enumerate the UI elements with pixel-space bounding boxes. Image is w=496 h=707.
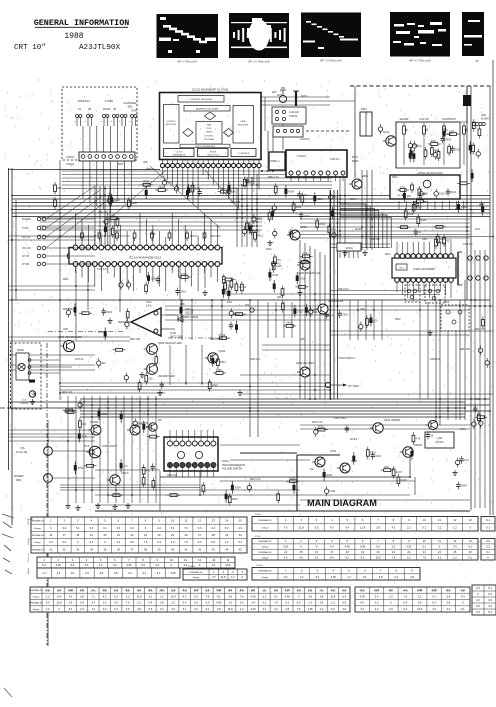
svg-text:RAM: RAM <box>207 124 212 127</box>
svg-text:R225: R225 <box>101 413 107 416</box>
svg-text:6.3: 6.3 <box>330 545 334 549</box>
svg-text:C#31: C#31 <box>63 329 69 331</box>
parts cluster J <box>338 310 342 318</box>
remote connector pads left <box>22 217 95 266</box>
svg-text:R331: R331 <box>413 145 419 148</box>
svg-text:IC#1: IC#1 <box>475 229 481 231</box>
svg-text:3.4: 3.4 <box>62 526 66 530</box>
waveform photo WF-2 <box>229 13 289 64</box>
svg-text:SELECTOR: SELECTOR <box>207 154 219 156</box>
svg-text:0.1: 0.1 <box>263 601 267 605</box>
svg-text:4.35: 4.35 <box>216 601 222 605</box>
parts cluster O top mid <box>110 197 113 203</box>
svg-text:0.6: 0.6 <box>418 601 422 605</box>
svg-text:7.6: 7.6 <box>422 555 426 559</box>
transistor Q603 <box>297 367 310 377</box>
parts cluster M <box>229 322 233 330</box>
corner pen mark <box>4 688 12 697</box>
svg-text:MPC1230M: MPC1230M <box>170 335 183 338</box>
svg-text:4.3: 4.3 <box>330 525 334 529</box>
svg-text:VOL: VOL <box>20 447 26 450</box>
svg-text:4.3: 4.3 <box>85 563 89 567</box>
parts cluster G below IC101 <box>222 289 225 295</box>
svg-text:4.3: 4.3 <box>157 526 161 530</box>
svg-text:TERMINAL NO: TERMINAL NO <box>258 540 272 543</box>
svg-text:4.3: 4.3 <box>392 525 396 529</box>
svg-text:C112: C112 <box>247 230 253 233</box>
waveform photo WF-4 <box>390 12 450 63</box>
svg-text:2.2k: 2.2k <box>110 214 115 217</box>
svg-text:4.3: 4.3 <box>375 607 379 611</box>
waveform photo WF-3 <box>301 13 361 63</box>
svg-text:CH UP: CH UP <box>22 256 30 258</box>
svg-text:2.2: 2.2 <box>99 563 103 567</box>
svg-text:5.1: 5.1 <box>42 563 46 567</box>
svg-text:2.8: 2.8 <box>160 601 164 605</box>
svg-text:0.1: 0.1 <box>198 540 202 544</box>
svg-text:7.6: 7.6 <box>403 594 407 598</box>
svg-text:5.1: 5.1 <box>285 601 289 605</box>
svg-text:5.1: 5.1 <box>488 586 492 590</box>
svg-text:CN-3B: CN-3B <box>397 195 404 197</box>
svg-text:TERMINAL NO: TERMINAL NO <box>258 570 272 573</box>
svg-text:C622: C622 <box>158 186 164 189</box>
svg-text:0.1: 0.1 <box>422 525 426 529</box>
svg-text:7.6: 7.6 <box>206 594 210 598</box>
svg-text:0.4: 0.4 <box>342 594 346 598</box>
svg-text:4.35: 4.35 <box>331 575 337 579</box>
svg-text:C418: C418 <box>180 291 186 294</box>
svg-text:2.2: 2.2 <box>315 555 319 559</box>
svg-text:9.1: 9.1 <box>71 571 75 575</box>
svg-text:TU101: TU101 <box>297 154 306 158</box>
svg-text:4.35: 4.35 <box>170 571 176 575</box>
transistor Q301 <box>297 260 310 270</box>
svg-text:Voltage: Voltage <box>34 541 42 544</box>
svg-text:0.6: 0.6 <box>69 601 73 605</box>
transistor Q608 <box>370 423 383 433</box>
svg-text:C520: C520 <box>455 148 461 151</box>
svg-text:Voltage: Voltage <box>33 608 41 611</box>
svg-text:7.6: 7.6 <box>240 594 244 598</box>
svg-text:0.6: 0.6 <box>141 563 145 567</box>
op IC101 main control chip <box>67 213 222 291</box>
svg-text:D#01 1S#1##: D#01 1S#1## <box>184 317 199 319</box>
svg-text:IC201 HD44608P: IC201 HD44608P <box>413 267 435 271</box>
parts cluster H <box>281 286 284 299</box>
svg-text:R512: R512 <box>113 200 119 203</box>
svg-text:11.8: 11.8 <box>137 594 142 598</box>
svg-text:C118 47u: C118 47u <box>300 139 311 141</box>
svg-text:UP: UP <box>113 109 117 111</box>
svg-text:B-204#: B-204# <box>481 118 489 121</box>
svg-text:0.4: 0.4 <box>488 592 492 596</box>
svg-text:7.6: 7.6 <box>453 545 457 549</box>
svg-text:MODE: MODE <box>210 151 217 153</box>
svg-text:100: 100 <box>149 377 154 380</box>
svg-text:R613: R613 <box>232 498 238 501</box>
svg-text:3.4: 3.4 <box>69 594 73 598</box>
svg-text:CP-90X: CP-90X <box>435 441 444 444</box>
svg-text:TYPE OV#OCX: TYPE OV#OCX <box>337 357 355 360</box>
transistor Q701 <box>383 136 396 146</box>
svg-text:6.3: 6.3 <box>114 594 118 598</box>
svg-text:9.1: 9.1 <box>90 540 94 544</box>
keypad dashed box S701 <box>62 87 137 160</box>
svg-text:4.35: 4.35 <box>360 545 366 549</box>
svg-text:47u: 47u <box>146 470 151 473</box>
svg-text:2.2: 2.2 <box>447 607 451 611</box>
svg-text:CN201: CN201 <box>66 162 75 166</box>
svg-text:2.2: 2.2 <box>476 598 480 602</box>
svg-text:LC21C02: LC21C02 <box>289 112 299 114</box>
svg-text:R304: R304 <box>235 487 241 490</box>
svg-text:7.6: 7.6 <box>297 607 301 611</box>
svg-text:SP5: SP5 <box>266 170 271 173</box>
svg-text:0.1: 0.1 <box>486 525 490 529</box>
svg-text:6.3: 6.3 <box>342 601 346 605</box>
svg-text:3.4: 3.4 <box>263 607 267 611</box>
svg-text:R718: R718 <box>220 334 226 337</box>
svg-text:DOWN: DOWN <box>103 109 111 111</box>
svg-text:0.4: 0.4 <box>211 526 215 530</box>
svg-text:TUNE: TUNE <box>105 99 113 103</box>
svg-text:47u: 47u <box>239 286 244 289</box>
junction dots on wires <box>272 170 274 172</box>
svg-text:3.4: 3.4 <box>155 563 159 567</box>
svg-text:2.2: 2.2 <box>274 607 278 611</box>
svg-text:IC101 HD46430B-5012: IC101 HD46430B-5012 <box>129 256 161 260</box>
svg-text:C520: C520 <box>254 230 260 233</box>
svg-text:CN101: CN101 <box>66 155 75 159</box>
svg-text:CONTROL: CONTROL <box>166 121 175 123</box>
svg-text:7.6: 7.6 <box>144 540 148 544</box>
svg-text:4.35: 4.35 <box>285 594 291 598</box>
svg-text:R331: R331 <box>234 312 240 315</box>
svg-text:VR#2: VR#2 <box>431 591 437 593</box>
svg-text:0.4: 0.4 <box>80 601 84 605</box>
transistor Q601 <box>315 304 328 314</box>
bold box IC801 <box>390 175 460 199</box>
svg-text:R304: R304 <box>327 474 333 477</box>
svg-text:REGISTER: REGISTER <box>238 124 249 126</box>
svg-text:Q604 2SC4815 GR0: Q604 2SC4815 GR0 <box>58 335 82 339</box>
svg-text:R304: R304 <box>319 223 325 226</box>
svg-text:2.2: 2.2 <box>389 594 393 598</box>
svg-text:A23JTL90X: A23JTL90X <box>79 44 120 52</box>
svg-text:1.7k: 1.7k <box>400 186 405 189</box>
svg-text:R512: R512 <box>220 361 226 364</box>
svg-text:D476: D476 <box>250 164 256 166</box>
svg-text:9.1: 9.1 <box>432 601 436 605</box>
svg-text:R#41 330: R#41 330 <box>460 349 471 351</box>
svg-text:1.2: 1.2 <box>46 607 50 611</box>
svg-text:7.6: 7.6 <box>284 525 288 529</box>
svg-text:CRT 10": CRT 10" <box>14 44 46 52</box>
svg-text:C#31: C#31 <box>360 309 366 311</box>
svg-text:CONTROL: CONTROL <box>204 135 215 137</box>
svg-text:D476: D476 <box>460 429 466 431</box>
svg-text:R#33 2.2k: R#33 2.2k <box>268 177 279 179</box>
parts cluster K lower right <box>381 469 394 472</box>
svg-text:100: 100 <box>407 195 412 198</box>
svg-text:5.1: 5.1 <box>149 594 153 598</box>
svg-text:0.6: 0.6 <box>320 601 324 605</box>
svg-text:R331: R331 <box>431 140 437 143</box>
diode block D801 <box>360 112 372 136</box>
svg-text:SUP #: SUP # <box>121 471 129 475</box>
svg-text:11.8: 11.8 <box>299 525 304 529</box>
svg-text:1.2: 1.2 <box>453 525 457 529</box>
svg-text:7.6: 7.6 <box>184 540 188 544</box>
svg-text:R405: R405 <box>143 181 149 184</box>
svg-text:C622: C622 <box>212 384 218 387</box>
svg-text:TERMINAL NO: TERMINAL NO <box>29 602 43 605</box>
svg-text:4.7k: 4.7k <box>167 182 172 185</box>
elbow fan wires to IC201 <box>340 204 366 248</box>
svg-text:VOL DN: VOL DN <box>22 248 31 250</box>
svg-text:11.8: 11.8 <box>221 575 226 579</box>
svg-text:11.8: 11.8 <box>57 601 62 605</box>
svg-text:GENERAL INFORMATION: GENERAL INFORMATION <box>34 18 130 28</box>
svg-text:R442: R442 <box>131 202 137 205</box>
svg-text:2.2k: 2.2k <box>303 252 308 255</box>
svg-text:SP501: SP501 <box>17 349 25 352</box>
svg-text:R613: R613 <box>257 235 263 238</box>
svg-text:C520: C520 <box>438 241 444 244</box>
svg-text:3.4: 3.4 <box>142 571 146 575</box>
waveform photo WF-1 <box>157 14 219 64</box>
svg-text:1.2: 1.2 <box>320 607 324 611</box>
dash-dot section border left bottom <box>46 343 48 645</box>
svg-text:C316: C316 <box>249 225 255 228</box>
svg-text:0.6: 0.6 <box>486 539 490 543</box>
svg-text:E#01: E#01 <box>362 174 369 178</box>
svg-text:11.8: 11.8 <box>360 525 365 529</box>
svg-text:0.1: 0.1 <box>486 550 490 554</box>
parts cluster D IF area <box>284 189 287 195</box>
svg-text:C418: C418 <box>300 278 306 281</box>
svg-text:D#12: D#12 <box>266 249 272 251</box>
svg-text:7.6: 7.6 <box>212 575 216 579</box>
table IC101 terminal voltages (left A) <box>31 517 247 553</box>
svg-text:6.3: 6.3 <box>194 601 198 605</box>
svg-text:2.8: 2.8 <box>447 601 451 605</box>
svg-text:5.1: 5.1 <box>114 607 118 611</box>
svg-text:WF-4 3.78Vp-p(H): WF-4 3.78Vp-p(H) <box>409 59 431 63</box>
svg-text:2.8: 2.8 <box>137 607 141 611</box>
svg-text:3.4: 3.4 <box>171 540 175 544</box>
svg-text:R715 1k: R715 1k <box>98 332 107 334</box>
svg-text:Q#05: Q#05 <box>300 225 307 229</box>
svg-text:R331: R331 <box>82 435 88 438</box>
svg-text:4.35: 4.35 <box>126 563 132 567</box>
svg-text:SHARP: SHARP <box>400 117 409 121</box>
svg-text:CONTRAST: CONTRAST <box>442 117 457 121</box>
svg-text:0.4: 0.4 <box>403 607 407 611</box>
sub box around controls <box>396 122 460 168</box>
svg-text:VR#2: VR#2 <box>417 591 423 593</box>
svg-text:TERMINAL NO: TERMINAL NO <box>31 548 45 551</box>
op IC102 microcomputer block <box>160 88 262 160</box>
svg-text:4.3: 4.3 <box>49 540 53 544</box>
svg-text:0.1: 0.1 <box>274 594 278 598</box>
svg-text:IC301: IC301 <box>255 514 262 516</box>
transistor Q402 <box>349 179 362 189</box>
svg-text:9.1: 9.1 <box>461 607 465 611</box>
svg-text:0.4: 0.4 <box>375 594 379 598</box>
speaker/earphone dashed box SP501 <box>11 343 73 409</box>
svg-text:2.2: 2.2 <box>407 525 411 529</box>
svg-text:R718: R718 <box>181 273 187 276</box>
svg-text:R225: R225 <box>445 138 451 141</box>
svg-text:2.8: 2.8 <box>80 594 84 598</box>
svg-text:TU101: TU101 <box>256 565 263 567</box>
svg-text:9.1: 9.1 <box>206 607 210 611</box>
svg-text:PROGRAM: PROGRAM <box>204 138 215 141</box>
svg-text:9.1: 9.1 <box>468 545 472 549</box>
svg-text:2.8: 2.8 <box>228 594 232 598</box>
parts cluster T <box>126 308 129 321</box>
svg-text:R225: R225 <box>195 187 201 190</box>
svg-text:COLOR: COLOR <box>419 117 428 121</box>
svg-text:IC501: IC501 <box>222 459 229 463</box>
svg-text:CLOCK: CLOCK <box>175 151 183 153</box>
svg-text:Q601 2SB624: Q601 2SB624 <box>384 418 401 422</box>
svg-text:C#22 103: C#22 103 <box>230 202 241 204</box>
transistor Q607 <box>107 475 120 485</box>
svg-text:R#12 4.7k: R#12 4.7k <box>62 392 73 394</box>
test point TP7 <box>325 382 330 387</box>
svg-text:SC401: SC401 <box>455 209 463 211</box>
wire: long vertical runs <box>261 96 330 98</box>
svg-text:SUP#2: SUP#2 <box>90 420 99 424</box>
svg-text:4.3: 4.3 <box>91 601 95 605</box>
svg-text:R101: R101 <box>384 466 390 469</box>
svg-text:W: W <box>476 59 479 63</box>
svg-text:9.1: 9.1 <box>217 594 221 598</box>
svg-text:0.1: 0.1 <box>468 555 472 559</box>
svg-text:4.3: 4.3 <box>114 601 118 605</box>
svg-text:11.8: 11.8 <box>330 594 335 598</box>
IF transformer T401 dashed <box>405 285 469 331</box>
svg-text:C#31: C#31 <box>422 239 428 241</box>
svg-text:WF-2 0.78Vp-p(H): WF-2 0.78Vp-p(H) <box>248 60 270 64</box>
svg-text:5.1: 5.1 <box>183 607 187 611</box>
svg-text:R#12 4.7k: R#12 4.7k <box>250 479 261 481</box>
svg-text:3.4: 3.4 <box>183 601 187 605</box>
svg-text:R715 1k: R715 1k <box>146 169 155 171</box>
op-amp IC302 <box>118 300 194 338</box>
svg-text:3.4: 3.4 <box>160 607 164 611</box>
svg-text:C520: C520 <box>216 369 222 372</box>
svg-text:VOL UP: VOL UP <box>22 237 31 239</box>
svg-text:0.6: 0.6 <box>211 540 215 544</box>
svg-text:5.1: 5.1 <box>263 594 267 598</box>
box L901 <box>425 432 454 448</box>
wire: long horizontal runs <box>62 170 332 172</box>
svg-text:9.1: 9.1 <box>157 571 161 575</box>
svg-text:47u: 47u <box>124 465 129 468</box>
svg-text:WF-1 43Vp-p(H): WF-1 43Vp-p(H) <box>177 60 197 64</box>
svg-text:Q605 2SA1015 GR0: Q605 2SA1015 GR0 <box>158 341 182 345</box>
svg-text:O2A: O2A <box>160 175 165 178</box>
svg-text:POWER: POWER <box>14 475 24 478</box>
svg-text:C520: C520 <box>317 198 323 201</box>
svg-text:4.7k: 4.7k <box>416 437 421 440</box>
svg-text:SELECTOR: SELECTOR <box>166 124 177 126</box>
svg-text:2.2: 2.2 <box>103 607 107 611</box>
svg-text:TP-#: TP-# <box>84 446 90 448</box>
svg-text:0.1: 0.1 <box>103 526 107 530</box>
svg-text:1.2: 1.2 <box>231 575 235 579</box>
svg-text:2.2: 2.2 <box>438 525 442 529</box>
svg-text:47u: 47u <box>334 196 339 199</box>
svg-text:1.2: 1.2 <box>240 607 244 611</box>
svg-text:3.4: 3.4 <box>171 607 175 611</box>
svg-text:4.3: 4.3 <box>103 594 107 598</box>
svg-text:6.3: 6.3 <box>90 526 94 530</box>
svg-text:R101: R101 <box>408 213 414 216</box>
control S601 power <box>44 474 53 483</box>
svg-text:R#02 56k: R#02 56k <box>63 309 74 311</box>
svg-text:ANT1: ANT1 <box>301 95 308 98</box>
parts cluster B <box>254 230 257 243</box>
svg-text:R512: R512 <box>146 426 152 429</box>
svg-text:C#04 0.01: C#04 0.01 <box>210 339 221 341</box>
svg-text:TV/AV: TV/AV <box>22 227 29 230</box>
svg-text:2.8: 2.8 <box>376 525 380 529</box>
svg-text:C112: C112 <box>416 197 422 200</box>
svg-text:4.3: 4.3 <box>284 555 288 559</box>
svg-text:2.8: 2.8 <box>114 571 118 575</box>
transistor Q306 <box>144 364 158 375</box>
diode D301 <box>178 316 183 322</box>
table stub right edge <box>481 517 495 532</box>
svg-text:2.8: 2.8 <box>447 594 451 598</box>
svg-text:1.2: 1.2 <box>42 571 46 575</box>
svg-text:2.2: 2.2 <box>486 545 490 549</box>
svg-text:1.2: 1.2 <box>300 575 304 579</box>
svg-text:330: 330 <box>82 423 87 426</box>
transistor Q609 <box>400 447 413 457</box>
svg-text:5.1: 5.1 <box>238 540 242 544</box>
svg-text:1.2: 1.2 <box>308 601 312 605</box>
svg-text:0.4: 0.4 <box>157 540 161 544</box>
svg-text:C118 47u: C118 47u <box>97 269 108 271</box>
svg-text:TERMINAL NO: TERMINAL NO <box>189 571 203 574</box>
svg-text:2.8: 2.8 <box>217 607 221 611</box>
parts cluster A below IC102 <box>155 189 168 192</box>
svg-text:11.8: 11.8 <box>417 607 422 611</box>
bold box TP501 <box>269 152 285 170</box>
parts cluster N mid-low <box>287 480 300 483</box>
svg-text:OSC1: OSC1 <box>125 591 132 593</box>
ground symbols <box>65 503 70 509</box>
svg-text:IC501: IC501 <box>255 536 262 538</box>
svg-text:0.6: 0.6 <box>130 540 134 544</box>
svg-text:SC401: SC401 <box>350 439 358 441</box>
svg-text:Q304: Q304 <box>219 349 226 353</box>
svg-text:0.4: 0.4 <box>345 525 349 529</box>
svg-text:IC#1: IC#1 <box>227 302 233 304</box>
svg-text:5.1: 5.1 <box>488 610 492 614</box>
svg-text:D#12: D#12 <box>118 164 124 166</box>
svg-text:R715 1k: R715 1k <box>75 359 84 361</box>
svg-text:R304: R304 <box>106 311 112 314</box>
table left B <box>37 557 235 568</box>
svg-text:Voltage: Voltage <box>33 595 41 598</box>
